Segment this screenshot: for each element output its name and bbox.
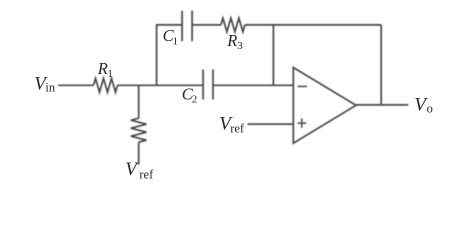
wire R1 to C2 xyxy=(118,84,203,86)
svg-text:2: 2 xyxy=(192,94,198,106)
wire C1 to R3 xyxy=(192,24,221,26)
resistor (unlabeled, to Vref) xyxy=(131,118,147,142)
wire resistor to Vref xyxy=(138,142,140,165)
svg-text:o: o xyxy=(427,102,433,116)
wire inverting junction vertical xyxy=(272,25,274,85)
op-amp U1 xyxy=(293,68,356,144)
svg-text:ref: ref xyxy=(139,168,154,182)
wire R3 to feedback corner xyxy=(245,24,381,26)
wire node down to resistor xyxy=(138,85,140,118)
capacitor C1 xyxy=(182,11,192,42)
svg-text:R: R xyxy=(226,31,237,50)
svg-text:1: 1 xyxy=(173,35,179,47)
wire output xyxy=(356,104,408,106)
op-amp plus pin label xyxy=(298,118,307,127)
capacitor C2 xyxy=(203,70,213,100)
wire node to top rail xyxy=(157,25,182,85)
resistor R1 xyxy=(94,78,118,92)
wire Vref to non-inverting input xyxy=(248,123,294,125)
wire feedback vertical xyxy=(380,25,382,105)
svg-text:1: 1 xyxy=(107,68,113,80)
wire C2 to op-amp inverting input xyxy=(213,84,293,86)
svg-text:3: 3 xyxy=(237,40,243,52)
svg-text:R: R xyxy=(97,59,108,78)
svg-text:ref: ref xyxy=(230,122,245,136)
svg-text:in: in xyxy=(45,81,55,95)
svg-text:V: V xyxy=(125,159,139,180)
wire Vin to R1 xyxy=(58,84,93,86)
resistor R3 xyxy=(221,18,245,32)
op-amp minus pin label xyxy=(298,85,308,87)
